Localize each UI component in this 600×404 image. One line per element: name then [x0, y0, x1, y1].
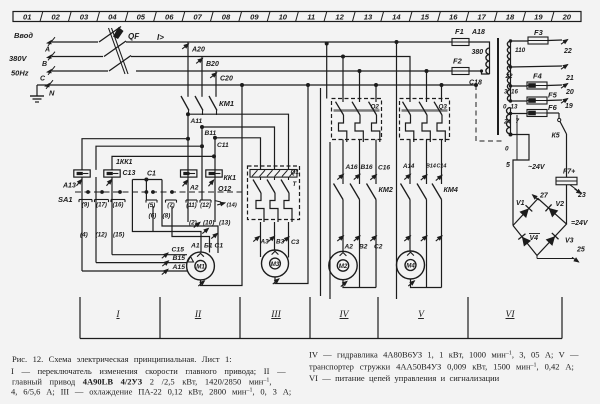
circuit breaker QF: [99, 27, 140, 75]
wire B drop to Q2: [342, 57, 344, 99]
svg-text:А14: А14: [402, 163, 415, 170]
svg-text:V4: V4: [530, 235, 539, 242]
svg-text:КМ2: КМ2: [379, 185, 393, 194]
svg-text:16: 16: [511, 89, 518, 96]
svg-text:Q2: Q2: [371, 104, 380, 111]
diode V1: [519, 205, 532, 218]
wire section divider vertical B: [329, 142, 331, 299]
svg-text:(8): (8): [163, 213, 171, 220]
svg-text:С11: С11: [217, 142, 229, 149]
svg-text:16: 16: [449, 13, 458, 22]
svg-text:110: 110: [515, 47, 526, 54]
section divider strip I-VI: [80, 297, 562, 339]
svg-text:II: II: [194, 310, 202, 320]
caption figure text: [11, 350, 579, 397]
svg-text:А18: А18: [471, 29, 485, 36]
svg-text:М3: М3: [271, 261, 280, 268]
node Б11: [200, 125, 204, 129]
motor М4: [397, 251, 425, 279]
svg-text:А13: А13: [62, 183, 76, 190]
wire right loop to С1 motor terminal: [162, 180, 218, 254]
svg-text:(4): (4): [80, 232, 88, 239]
svg-text:F1: F1: [455, 27, 464, 36]
svg-text:III: III: [270, 310, 281, 320]
svg-text:19: 19: [565, 103, 573, 110]
diode V2: [545, 204, 558, 217]
svg-text:380: 380: [472, 49, 484, 56]
svg-text:22: 22: [563, 48, 572, 55]
node С11: [213, 136, 217, 140]
svg-text:КМ1: КМ1: [219, 99, 234, 108]
svg-text:08: 08: [222, 13, 231, 22]
svg-text:Т: Т: [293, 181, 298, 188]
svg-text:F7+: F7+: [563, 169, 575, 176]
wire C drop to Q3: [426, 71, 428, 99]
svg-text:С15: С15: [172, 247, 185, 254]
tap 110 + fuse F3 line 22: [511, 40, 529, 42]
svg-text:IV: IV: [339, 310, 350, 320]
wire А13 link from А11 to terminal А13: [186, 137, 190, 141]
svg-text:24: 24: [503, 119, 511, 126]
transformer T primary winding: [486, 48, 490, 74]
svg-text:С1: С1: [147, 171, 156, 178]
svg-text:Рис. 12. Схема электрическая п: Рис. 12. Схема электрическая принципиаль…: [12, 354, 232, 364]
node 27: [530, 192, 540, 202]
svg-text:В16: В16: [361, 164, 373, 171]
wire (7)-(8) drop to Б1: [172, 206, 210, 253]
wire С20 drop: [215, 71, 217, 97]
delta symbol М1: [188, 257, 194, 263]
svg-text:С2: С2: [374, 244, 383, 251]
wire phase A after QF to fuse F1: [126, 41, 452, 43]
SA1 contact (7): [166, 199, 177, 201]
svg-text:20: 20: [565, 89, 574, 96]
svg-text:15: 15: [421, 13, 430, 22]
svg-text:21: 21: [565, 75, 574, 82]
svg-text:18: 18: [506, 13, 515, 22]
svg-text:27: 27: [539, 193, 549, 200]
svg-text:06: 06: [165, 13, 174, 22]
svg-text:F3: F3: [534, 28, 544, 37]
svg-text:=24V: =24V: [571, 220, 589, 227]
wires to motor М3: [260, 222, 262, 257]
wire В13 link from В11: [200, 144, 204, 148]
svg-text:QF: QF: [128, 32, 140, 41]
svg-text:0: 0: [505, 146, 509, 153]
svg-text:(5): (5): [148, 202, 155, 209]
svg-text:(12): (12): [96, 232, 107, 239]
tap 22 line 21: [511, 66, 563, 67]
wire А20 drop: [187, 42, 189, 97]
svg-text:Q3: Q3: [439, 104, 448, 111]
svg-text:13: 13: [511, 104, 518, 111]
svg-text:12: 12: [335, 13, 344, 22]
svg-text:К5: К5: [552, 133, 560, 140]
svg-text:А1: А1: [190, 243, 200, 250]
svg-text:1КК1: 1КК1: [116, 159, 132, 166]
wire С1 drop: [145, 180, 147, 201]
svg-text:А: А: [44, 47, 50, 54]
wire C drop to Q2: [359, 71, 361, 99]
wire М3 return to N: [275, 85, 308, 284]
contactor КМ2 contacts: [334, 184, 344, 200]
svg-text:~24V: ~24V: [528, 164, 546, 171]
dashed link wire: [476, 85, 505, 141]
svg-text:I>: I>: [157, 33, 164, 42]
wire 7 drop: [516, 115, 518, 160]
svg-text:А2: А2: [189, 185, 199, 192]
tap 0 bottom: [509, 133, 513, 137]
svg-text:23: 23: [577, 192, 586, 199]
svg-text:(11): (11): [186, 202, 196, 209]
svg-text:С1: С1: [215, 243, 224, 250]
wire 25 output: [536, 256, 538, 259]
svg-text:3: 3: [504, 89, 508, 96]
svg-text:F2: F2: [453, 57, 463, 66]
node А11: [186, 112, 190, 116]
diode V4: [518, 234, 531, 247]
svg-text:17: 17: [477, 13, 486, 22]
terminal block С13: [104, 170, 120, 177]
transformer secondary lower winding: [507, 108, 511, 135]
svg-text:М2: М2: [339, 263, 348, 270]
svg-text:I — переключатель изменения ск: I — переключатель изменения скорости гла…: [11, 366, 286, 376]
top reference grid strip 01-20: [13, 12, 581, 22]
SA1 contact (5): [146, 199, 157, 201]
svg-text:IV — гидравлика 4А80В6УЗ 1, 1: IV — гидравлика 4А80В6УЗ 1, 1 кВт, 1000 …: [309, 350, 579, 360]
svg-text:V: V: [418, 310, 425, 320]
svg-text:Б1: Б1: [204, 243, 213, 250]
SA1 contact (12): [200, 199, 211, 201]
switch К5: [558, 113, 560, 119]
contactor КМ4 contacts: [401, 184, 411, 200]
motor М2: [329, 251, 357, 279]
svg-text:05: 05: [137, 13, 146, 22]
svg-text:VI: VI: [506, 310, 516, 320]
svg-text:С16: С16: [378, 165, 390, 172]
svg-text:V2: V2: [556, 201, 565, 208]
contactor KM1 main contacts: [181, 96, 234, 115]
wire М4 bottom loop: [411, 279, 442, 288]
wire phase B after QF, corner down to Q3: [131, 57, 410, 99]
wire vertical stub from A: [325, 42, 329, 46]
tap 3/16 + fuse F4 line 20: [511, 85, 528, 87]
wire N drop to Q3: [441, 85, 443, 99]
svg-text:(13): (13): [219, 220, 230, 227]
wire phase B left segment: [52, 56, 103, 58]
wires Q3 to КМ4: [409, 140, 411, 185]
svg-text:(9): (9): [82, 201, 89, 208]
wire phase C after QF to fuse F2: [136, 70, 452, 72]
svg-text:В2: В2: [359, 244, 368, 251]
wire F2 to transformer primary: [469, 71, 490, 74]
wire С15: [111, 177, 113, 255]
fuse F2: [452, 68, 469, 75]
svg-text:А3: А3: [260, 239, 270, 246]
svg-text:Q1: Q1: [291, 169, 300, 176]
svg-text:главный привод 4А90LB 4/2УЗ 2: главный привод 4А90LB 4/2УЗ 2 /2,5 кВт, …: [12, 377, 271, 387]
svg-text:V1: V1: [516, 200, 525, 207]
wire А11 branch to Q1 pole3: [188, 114, 289, 166]
svg-text:20: 20: [562, 13, 572, 22]
wire N drop to Q2: [375, 85, 377, 99]
svg-text:N: N: [49, 89, 55, 98]
svg-text:03: 03: [80, 13, 89, 22]
svg-text:(14): (14): [227, 203, 237, 209]
wires Q2 to КМ2: [342, 140, 344, 185]
terminal block О12 / КК1: [206, 170, 222, 177]
svg-text:Ввод: Ввод: [14, 31, 33, 40]
wires КМ4 to motor М4: [409, 200, 411, 252]
ground symbol on N: [30, 85, 44, 102]
automatic breaker Q3: [400, 99, 450, 140]
svg-text:22: 22: [505, 73, 514, 80]
wire С11 vertical: [214, 138, 216, 222]
wire phase C left segment: [52, 70, 108, 72]
svg-text:А15: А15: [172, 264, 186, 271]
svg-text:С13: С13: [123, 170, 136, 177]
wire С1 crossbar: [132, 179, 162, 181]
diode V3: [546, 233, 559, 246]
wire М2 bottom loop: [343, 280, 376, 288]
svg-text:С3: С3: [291, 239, 300, 246]
wire F7 to bridge: [566, 185, 568, 224]
svg-text:(6): (6): [149, 213, 157, 220]
svg-text:14: 14: [392, 13, 401, 22]
svg-text:5: 5: [506, 162, 510, 169]
svg-text:В15: В15: [173, 255, 186, 262]
svg-text:V3: V3: [565, 238, 574, 245]
svg-text:В20: В20: [206, 61, 219, 68]
svg-text:F5: F5: [548, 91, 558, 100]
wire long vertical from A down between sections: [395, 40, 399, 44]
svg-text:10: 10: [279, 13, 288, 22]
wire speed-select left loop to А1: [132, 180, 201, 253]
svg-text:13: 13: [364, 13, 373, 22]
wire А11 vertical: [187, 114, 189, 222]
svg-text:(12): (12): [200, 202, 211, 209]
svg-text:КМ4: КМ4: [444, 185, 458, 194]
wire section divider vertical A: [320, 88, 322, 296]
automatic breaker Q1 with thermal heater bar: [248, 166, 300, 220]
fuse F1: [452, 39, 469, 46]
wire 23 exit: [570, 185, 577, 190]
svg-text:С20: С20: [220, 76, 233, 83]
svg-text:С: С: [40, 76, 46, 83]
svg-text:А20: А20: [191, 47, 205, 54]
svg-text:50Hz: 50Hz: [11, 69, 29, 78]
wire К5 down to F7: [566, 134, 568, 178]
node N to dashed link: [474, 83, 478, 87]
svg-text:4, 6/5,6 А; III — охлаждение П: 4, 6/5,6 А; III — охлаждение ПА-22 0,12 …: [11, 387, 291, 397]
wire В11 vertical: [201, 127, 203, 200]
svg-text:VI — питание цепей управления: VI — питание цепей управления и сигнализ…: [309, 373, 500, 383]
tap 0/13 + fuse F5 line 19: [511, 100, 528, 102]
wire М1 star point return to N: [201, 85, 243, 286]
wire А15: [81, 177, 83, 271]
wire F1 to transformer primary: [469, 42, 490, 48]
rectifier bridge V1-V4: [513, 199, 567, 256]
svg-text:М1: М1: [196, 264, 205, 271]
svg-text:I: I: [115, 310, 120, 320]
wire С13 link from С11 to terminal С13: [212, 154, 216, 158]
automatic breaker Q2: [332, 99, 382, 140]
wire В15: [95, 177, 97, 263]
wire (5)-(6) drop: [152, 206, 154, 232]
svg-text:(16): (16): [113, 201, 124, 208]
wires КМ2 to motor М2: [342, 200, 344, 252]
transformer core: [497, 38, 499, 135]
svg-text:25: 25: [576, 247, 585, 254]
svg-text:09: 09: [250, 13, 259, 22]
svg-text:01: 01: [23, 13, 31, 22]
svg-text:SA1: SA1: [58, 195, 73, 204]
svg-text:А11: А11: [190, 118, 203, 125]
terminal block А13: [74, 170, 90, 177]
svg-text:(7): (7): [167, 202, 174, 209]
svg-text:транспортер стружки 4АА50В4УЗ: транспортер стружки 4АА50В4УЗ 0,009 кВт,…: [309, 362, 574, 372]
wire С11 branch to Q1 pole1: [215, 138, 261, 166]
terminal block А12: [181, 170, 197, 177]
svg-text:F6: F6: [548, 103, 558, 112]
svg-text:F4: F4: [533, 72, 543, 81]
svg-text:02: 02: [51, 13, 60, 22]
wire N bus: [37, 84, 476, 86]
svg-text:(15): (15): [113, 232, 124, 239]
svg-text:04: 04: [108, 13, 117, 22]
motor М3: [262, 250, 289, 277]
tap 24/7 + fuse F6 to К5: [511, 113, 528, 115]
transformer secondary upper winding: [507, 41, 510, 102]
svg-text:380V: 380V: [9, 54, 28, 63]
svg-text:19: 19: [534, 13, 543, 22]
svg-text:11: 11: [307, 13, 315, 22]
SA1 contact (11): [186, 199, 197, 201]
svg-text:В: В: [42, 61, 47, 68]
svg-text:В14: В14: [426, 164, 436, 170]
svg-text:М4: М4: [406, 263, 415, 270]
SA1 contact row (9)(17)(16): [79, 199, 92, 201]
wire В11 branch to Q1 pole2: [202, 127, 275, 166]
svg-text:А2: А2: [344, 244, 354, 251]
fuse F7: [556, 177, 577, 185]
svg-text:С14: С14: [437, 164, 447, 170]
SA1 contact (14): [215, 201, 222, 203]
svg-text:07: 07: [193, 13, 202, 22]
motor М1: [187, 252, 215, 280]
wire phase A left segment: [52, 41, 98, 43]
wire В20 drop: [201, 57, 203, 97]
svg-text:А16: А16: [345, 164, 358, 171]
svg-text:0: 0: [503, 104, 507, 111]
svg-text:(17): (17): [96, 201, 107, 208]
svg-text:КК1: КК1: [224, 175, 237, 182]
svg-text:В3: В3: [276, 239, 285, 246]
